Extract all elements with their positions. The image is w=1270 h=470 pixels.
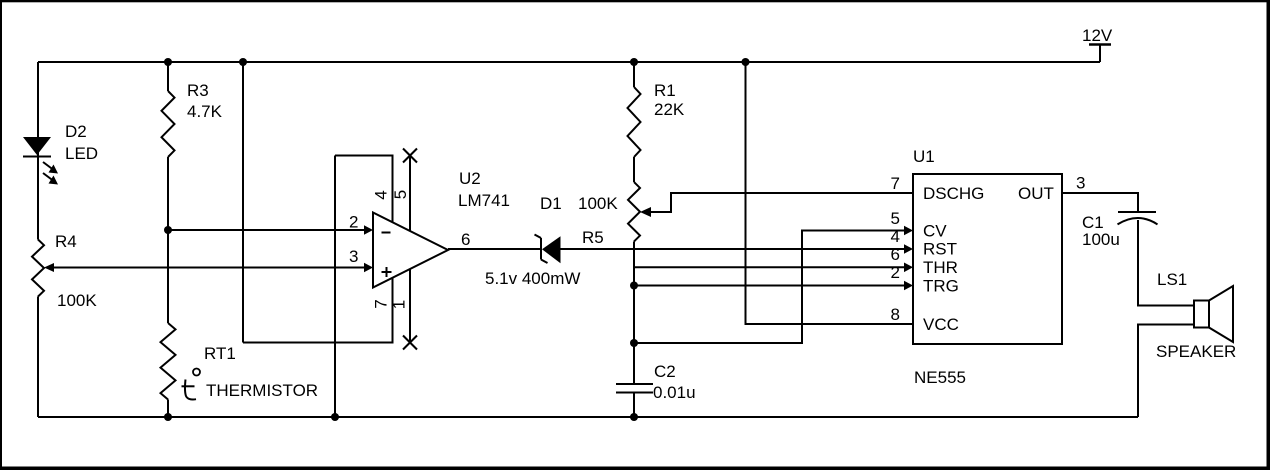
svg-text:5.1v 400mW: 5.1v 400mW xyxy=(485,269,580,288)
svg-text:3: 3 xyxy=(349,247,358,266)
no-connect X top (pin5) xyxy=(403,149,417,163)
opamp minus sign xyxy=(382,232,391,234)
wire speaker bottom terminal to ground rail xyxy=(1138,325,1194,418)
zener diode D1 xyxy=(535,235,561,264)
wire opamp pin4 top jog xyxy=(335,156,393,223)
svg-text:4.7K: 4.7K xyxy=(187,102,223,121)
node dot R3/RT1 junction wire 2 xyxy=(164,226,172,234)
svg-text:D2: D2 xyxy=(65,122,87,141)
svg-text:RT1: RT1 xyxy=(204,344,236,363)
wire TRG row xyxy=(634,285,905,287)
wire RT1 bottom xyxy=(167,400,169,418)
node dot CV junction xyxy=(630,339,638,347)
svg-text:2: 2 xyxy=(891,263,900,282)
potentiometer R5 xyxy=(628,182,640,241)
R4 wiper arrow xyxy=(44,263,54,272)
wire R1 to R5 xyxy=(633,157,635,182)
wire THR row xyxy=(634,266,905,268)
svg-text:OUT: OUT xyxy=(1018,184,1054,203)
wire zener to RST row xyxy=(561,248,905,250)
svg-text:R4: R4 xyxy=(55,232,77,251)
resistor R3 xyxy=(162,91,175,157)
potentiometer R4 xyxy=(32,240,44,297)
svg-text:DSCHG: DSCHG xyxy=(923,184,984,203)
thermistor t crossbar xyxy=(182,385,195,387)
svg-text:6: 6 xyxy=(891,245,900,264)
IC U1 NE555 box xyxy=(913,174,1062,344)
svg-text:THERMISTOR: THERMISTOR xyxy=(206,381,318,400)
wire left vertical branch (D2/R4) xyxy=(37,62,39,240)
svg-text:U1: U1 xyxy=(913,147,935,166)
pin arrowhead CV xyxy=(904,226,913,236)
svg-text:5: 5 xyxy=(891,209,900,228)
wire opamp V+ column from top rail xyxy=(242,62,244,343)
node dot top rail at VCC column xyxy=(742,58,750,66)
opamp plus sign xyxy=(382,267,392,277)
svg-text:22K: 22K xyxy=(654,100,685,119)
wire VCC column and row xyxy=(746,62,914,324)
svg-text:6: 6 xyxy=(461,230,470,249)
wire R3/RT1 column xyxy=(167,62,169,91)
wire opamp pin7 bottom jog xyxy=(243,278,393,343)
op-amp U2 xyxy=(373,213,448,288)
wire opamp pin3 input row xyxy=(52,267,366,269)
svg-text:NE555: NE555 xyxy=(914,368,966,387)
speaker LS1 xyxy=(1194,286,1233,342)
node dot top rail at opamp V+ column xyxy=(239,58,247,66)
wire R1 column top xyxy=(633,62,635,87)
svg-text:CV: CV xyxy=(923,222,947,241)
capacitor C2 xyxy=(616,384,653,393)
svg-text:LS1: LS1 xyxy=(1157,270,1187,289)
svg-text:TRG: TRG xyxy=(923,276,959,295)
svg-text:4: 4 xyxy=(372,190,391,199)
svg-text:12V: 12V xyxy=(1082,26,1113,45)
pin arrowhead RST xyxy=(904,244,913,254)
svg-text:100u: 100u xyxy=(1082,230,1120,249)
wire C1 to speaker top terminal xyxy=(1138,220,1194,306)
node dot top rail at R1 xyxy=(630,58,638,66)
svg-text:7: 7 xyxy=(891,174,900,193)
svg-text:5: 5 xyxy=(391,190,410,199)
wire bottom ground rail xyxy=(38,416,1138,418)
svg-text:THR: THR xyxy=(923,258,958,277)
svg-text:4: 4 xyxy=(891,227,900,246)
opamp pin5 line xyxy=(409,156,411,232)
svg-text:D1: D1 xyxy=(540,194,562,213)
svg-text:U2: U2 xyxy=(459,169,481,188)
wire opamp V- column to ground xyxy=(334,156,336,418)
node dot bottom rail at opamp V- column xyxy=(331,413,339,421)
svg-text:7: 7 xyxy=(372,299,391,308)
power terminal 12V xyxy=(1089,45,1111,63)
svg-text:R1: R1 xyxy=(654,81,676,100)
svg-text:100K: 100K xyxy=(578,194,618,213)
wire R3 to RT1 xyxy=(167,157,169,323)
wire left branch lower segment xyxy=(37,297,39,418)
node dot bottom rail at RT1 xyxy=(164,413,172,421)
wire opamp output to zener xyxy=(448,248,541,250)
capacitor C1 (polarized) xyxy=(1118,212,1158,224)
svg-text:C2: C2 xyxy=(654,362,676,381)
svg-text:SPEAKER: SPEAKER xyxy=(1156,342,1236,361)
thermistor degree circle xyxy=(193,369,200,376)
svg-text:3: 3 xyxy=(1076,174,1085,193)
svg-text:LM741: LM741 xyxy=(458,191,510,210)
R5 wiper arrow and wire to DSCHG xyxy=(640,193,913,217)
svg-text:8: 8 xyxy=(891,305,900,324)
node dot top rail at R3 xyxy=(164,58,172,66)
thermistor t symbol xyxy=(185,380,196,400)
opamp pin3 arrowhead xyxy=(364,263,373,272)
wire C2 bottom to ground rail xyxy=(633,393,635,418)
svg-text:LED: LED xyxy=(65,144,98,163)
node dot TRG junction xyxy=(630,282,638,290)
no-connect X bottom (pin1) xyxy=(403,336,417,350)
pin arrowhead TRG xyxy=(904,281,913,291)
svg-text:2: 2 xyxy=(349,213,358,232)
svg-text:1: 1 xyxy=(390,300,409,309)
thermistor RT1 xyxy=(161,323,176,400)
wire R5 bottom column xyxy=(633,242,635,385)
svg-text:VCC: VCC xyxy=(923,315,959,334)
svg-text:RST: RST xyxy=(923,240,957,259)
svg-text:R5: R5 xyxy=(582,228,604,247)
wire OUT pin3 row xyxy=(1062,193,1138,212)
node dot bottom rail at C2 xyxy=(630,413,638,421)
svg-text:0.01u: 0.01u xyxy=(653,383,696,402)
wire opamp pin2 input row xyxy=(168,229,366,231)
LED D2 xyxy=(23,137,58,185)
pin arrowhead THR xyxy=(904,263,913,273)
opamp pin1 line xyxy=(409,269,411,343)
opamp pin2 arrowhead xyxy=(364,225,373,234)
svg-text:R3: R3 xyxy=(187,81,209,100)
wire top +12V rail xyxy=(38,61,1100,63)
wire CV path xyxy=(634,231,905,344)
resistor R1 xyxy=(628,87,641,157)
svg-text:100K: 100K xyxy=(57,291,97,310)
